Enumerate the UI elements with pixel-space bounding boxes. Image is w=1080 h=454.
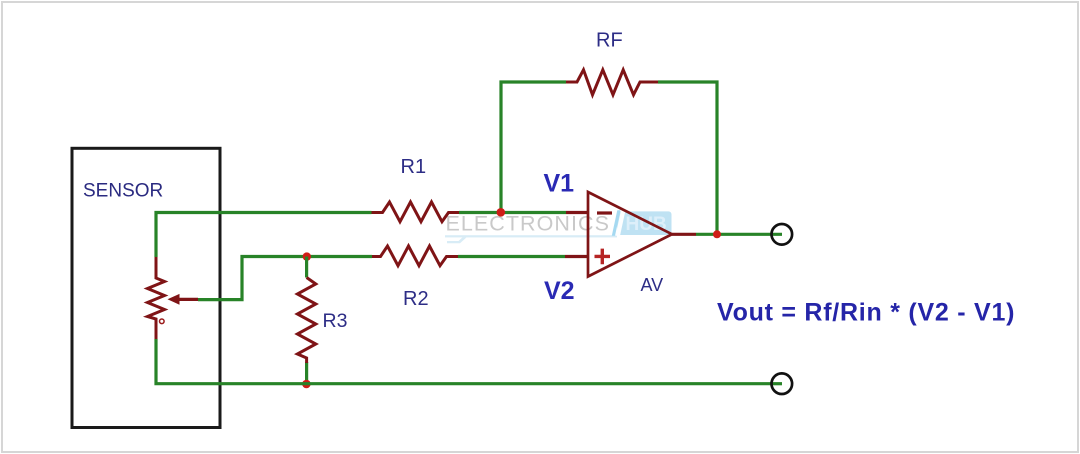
wire: pot bottom to bottom rail (156, 339, 770, 384)
node B junction dot R3 top (303, 252, 311, 260)
node A junction dot (497, 208, 506, 217)
output node junction dot (713, 230, 721, 238)
potentiometer terminal mark (160, 319, 165, 324)
wire: top rail from sensor to R1 (156, 213, 372, 258)
wire: op-amp output red stub (672, 233, 696, 236)
wire: red stub into non-inverting input (565, 255, 588, 258)
svg-text:R2: R2 (403, 288, 429, 310)
svg-text:SENSOR: SENSOR (83, 181, 163, 202)
svg-text:V1: V1 (544, 170, 575, 198)
wire: RF right down to output node (658, 82, 717, 234)
wire: green stub above R3 (305, 257, 308, 278)
svg-text:V2: V2 (544, 277, 575, 305)
wire: R2 right to op-amp (458, 255, 565, 258)
wire: vertical from node A up to RF left (501, 82, 566, 213)
svg-text:R3: R3 (323, 310, 348, 332)
svg-text:HUB: HUB (626, 214, 667, 235)
svg-text:R1: R1 (401, 156, 427, 178)
wire: green stub below R3 (305, 362, 308, 384)
wire: red stub into inverting input (566, 211, 588, 214)
op-amp minus sign (597, 211, 612, 214)
node C junction dot R3 bottom (302, 380, 311, 389)
resistor R3 (297, 278, 315, 364)
wire: wiper to V2 rail (198, 257, 372, 300)
wire: bottom rail into terminal (770, 382, 782, 385)
svg-text:Vout = Rf/Rin * (V2 - V1): Vout = Rf/Rin * (V2 - V1) (717, 299, 1015, 327)
svg-text:ELECTRONICS: ELECTRONICS (446, 212, 610, 236)
potentiometer wiper arrow (168, 294, 199, 305)
resistor R2 (372, 246, 458, 266)
potentiometer element (148, 257, 165, 339)
op-amp U1 (588, 192, 672, 277)
output terminal bottom (772, 373, 793, 394)
wire: output to terminal (696, 233, 782, 236)
svg-text:AV: AV (641, 275, 664, 295)
wire: R1 right to op-amp area (459, 211, 566, 214)
sensor box (72, 148, 220, 427)
svg-text:RF: RF (596, 30, 623, 52)
resistor RF (566, 70, 658, 95)
output terminal top (772, 224, 793, 245)
watermark electronics hub (445, 210, 672, 243)
op-amp plus sign (595, 249, 611, 265)
resistor R1 (372, 202, 460, 222)
